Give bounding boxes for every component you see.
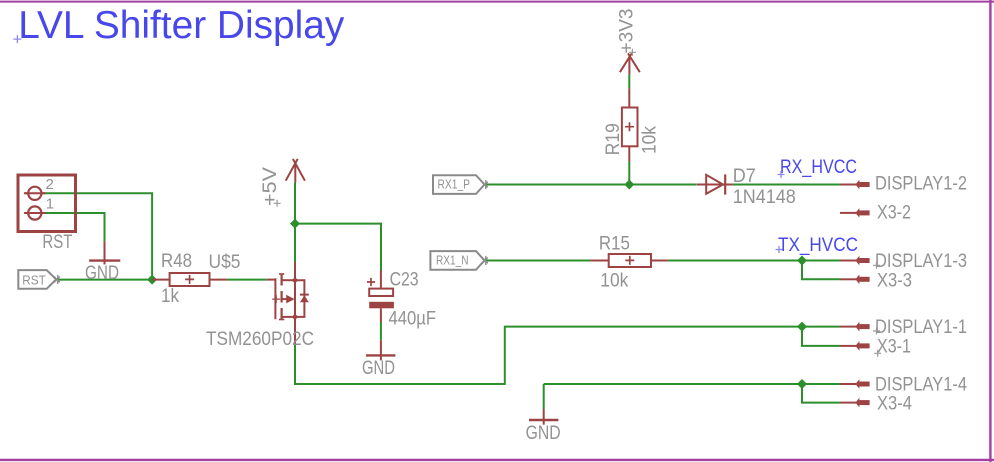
svg-text:X3-3: X3-3 xyxy=(877,271,912,292)
svg-text:X3-2: X3-2 xyxy=(877,203,911,224)
svg-text:RST: RST xyxy=(22,273,46,288)
svg-text:DISPLAY1-4: DISPLAY1-4 xyxy=(875,375,967,396)
svg-text:GND: GND xyxy=(362,358,395,379)
svg-text:DISPLAY1-1: DISPLAY1-1 xyxy=(875,317,967,338)
svg-text:R19: R19 xyxy=(603,123,624,155)
svg-text:+5V: +5V xyxy=(260,167,281,206)
svg-text:1: 1 xyxy=(46,196,54,213)
svg-text:1N4148: 1N4148 xyxy=(733,187,796,208)
svg-text:RX1_P: RX1_P xyxy=(438,177,471,192)
svg-text:DISPLAY1-3: DISPLAY1-3 xyxy=(875,251,967,272)
svg-text:TSM260P02C: TSM260P02C xyxy=(206,329,314,350)
svg-text:GND: GND xyxy=(85,263,119,284)
svg-text:440µF: 440µF xyxy=(389,308,437,329)
svg-text:+3V3: +3V3 xyxy=(616,9,637,54)
svg-text:TX_HVCC: TX_HVCC xyxy=(778,235,858,256)
svg-text:R15: R15 xyxy=(599,234,630,255)
svg-text:D7: D7 xyxy=(733,166,756,187)
svg-text:C23: C23 xyxy=(390,270,419,291)
svg-text:X3-1: X3-1 xyxy=(877,337,911,358)
svg-text:X3-4: X3-4 xyxy=(877,394,912,415)
svg-text:RX1_N: RX1_N xyxy=(436,252,469,267)
svg-text:RX_HVCC: RX_HVCC xyxy=(780,157,857,178)
svg-text:2: 2 xyxy=(46,176,54,193)
svg-text:10k: 10k xyxy=(600,270,628,291)
svg-text:GND: GND xyxy=(526,423,561,444)
svg-text:DISPLAY1-2: DISPLAY1-2 xyxy=(875,174,967,195)
svg-text:RST: RST xyxy=(42,232,72,253)
svg-text:U$5: U$5 xyxy=(209,252,241,273)
svg-text:1k: 1k xyxy=(161,286,179,307)
svg-text:LVL Shifter Display: LVL Shifter Display xyxy=(18,4,344,47)
svg-text:R48: R48 xyxy=(161,251,192,272)
svg-text:10k: 10k xyxy=(640,126,661,154)
